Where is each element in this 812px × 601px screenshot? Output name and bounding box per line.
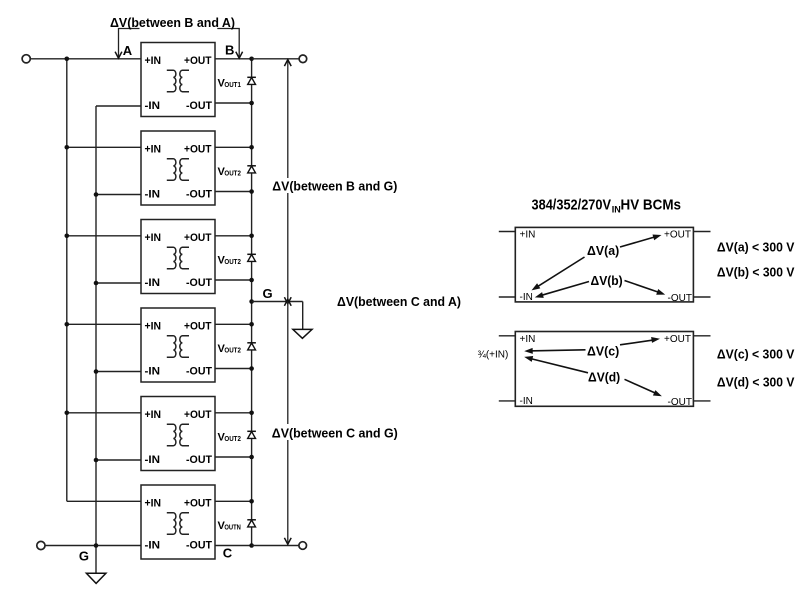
wire G tap horizontal — [252, 301, 303, 303]
svg-text:+IN: +IN — [520, 334, 536, 345]
svg-text:ΔV(d): ΔV(d) — [588, 369, 620, 384]
svg-text:G: G — [263, 286, 273, 301]
junction node G tap on output bus — [249, 299, 254, 304]
svg-text:-IN: -IN — [145, 540, 161, 552]
svg-text:HV BCMs: HV BCMs — [621, 197, 682, 214]
diode D5 — [247, 431, 256, 438]
wire top input rail A to U1 +IN — [31, 58, 142, 60]
wire U4 -OUT stub — [215, 368, 252, 370]
junction -IN bus node 2 — [94, 192, 99, 197]
wire U2 +IN stub — [67, 146, 141, 148]
diode D2 — [247, 166, 256, 173]
wire U5 +OUT stub — [215, 412, 252, 414]
wire dimension line G to C — [287, 302, 289, 545]
svg-text:+IN: +IN — [145, 232, 162, 244]
wire U1 -OUT stub — [215, 102, 252, 104]
svg-text:C: C — [223, 546, 233, 561]
arrow dV(b) — [535, 281, 665, 298]
junction U6 -OUT node — [249, 543, 254, 548]
arrowhead at rail C — [284, 538, 291, 545]
svg-text:+OUT: +OUT — [184, 409, 212, 421]
svg-text:+OUT: +OUT — [664, 230, 691, 241]
svg-text:ΔV(between C and G): ΔV(between C and G) — [272, 426, 398, 441]
arrow dV(a) — [532, 235, 662, 291]
svg-text:+IN: +IN — [145, 320, 162, 332]
svg-text:+OUT: +OUT — [184, 320, 212, 332]
wire U5 +IN stub — [67, 412, 141, 414]
junction +IN bus node 3 — [65, 234, 70, 239]
wire U6 +OUT stub — [215, 500, 252, 502]
dV(d) tail arrowhead at 3/4(+IN) — [524, 356, 533, 362]
arrow dV(c) — [524, 337, 660, 354]
svg-text:384/352/270V: 384/352/270V — [532, 197, 612, 214]
junction -IN bus node 5 — [94, 458, 99, 463]
wire U5 -OUT stub — [215, 456, 252, 458]
BCM module U4 — [141, 308, 215, 382]
dV(d) head arrowhead at -OUT — [653, 390, 662, 396]
junction U4 +OUT node — [249, 322, 254, 327]
wire bus -IN vertical — [95, 106, 97, 573]
wire U4 -IN stub — [96, 371, 141, 373]
svg-text:+IN: +IN — [145, 409, 162, 421]
wire box1 +IN stub — [499, 231, 516, 233]
svg-text:-OUT: -OUT — [668, 293, 692, 304]
leader line right (to node B) — [217, 29, 239, 57]
junction U6 +OUT node — [249, 499, 254, 504]
diode D3 — [247, 254, 256, 261]
dV(b) tail arrowhead at -IN — [535, 292, 544, 298]
output terminal C bottom-right — [299, 542, 307, 550]
wire bottom input rail G to U6 -IN — [45, 545, 141, 547]
leader line left (to node A) — [119, 29, 140, 57]
svg-text:OUT2: OUT2 — [224, 348, 241, 355]
svg-text:ΔV(between B and A): ΔV(between B and A) — [110, 15, 235, 30]
svg-text:-IN: -IN — [145, 454, 161, 466]
svg-text:-IN: -IN — [145, 100, 161, 112]
wire box1 -OUT stub — [693, 296, 710, 298]
wire U2 -IN stub — [96, 194, 141, 196]
svg-text:+IN: +IN — [145, 143, 162, 155]
svg-text:A: A — [123, 43, 133, 58]
junction -IN bus at bottom rail — [94, 543, 99, 548]
svg-text:ΔV(b): ΔV(b) — [591, 273, 623, 288]
wire box2 -IN stub — [499, 400, 516, 402]
junction U3 -OUT node — [249, 278, 254, 283]
label VOUT2 — [218, 343, 241, 355]
input terminal (+) top-left — [22, 55, 30, 63]
svg-text:ΔV(d) < 300 V: ΔV(d) < 300 V — [717, 375, 795, 390]
wire U2 -OUT stub — [215, 191, 252, 193]
wire box2 +OUT stub — [693, 335, 710, 337]
diode D6 — [247, 520, 256, 527]
junction +IN bus node 2 — [65, 145, 70, 150]
output terminal B top-right — [299, 55, 307, 63]
wire U6 -OUT stub — [215, 545, 252, 547]
junction U5 +OUT node — [249, 411, 254, 416]
svg-text:ΔV(c): ΔV(c) — [587, 343, 619, 358]
BCM module U5 — [141, 397, 215, 471]
svg-text:-IN: -IN — [520, 292, 533, 303]
svg-text:ΔV(b) < 300 V: ΔV(b) < 300 V — [717, 265, 795, 280]
BCM module U1 — [141, 43, 215, 117]
svg-text:-OUT: -OUT — [186, 540, 212, 552]
wire U1 +OUT stub — [215, 58, 252, 60]
svg-text:+OUT: +OUT — [184, 232, 212, 244]
wire output series bus — [251, 59, 253, 546]
box2 pin labels — [520, 334, 693, 408]
svg-text:ΔV(between B and G): ΔV(between B and G) — [272, 178, 397, 193]
svg-text:-OUT: -OUT — [186, 454, 212, 466]
svg-text:-OUT: -OUT — [186, 100, 212, 112]
arrow dV(d) — [524, 356, 662, 396]
wire U1 -IN stub — [96, 105, 141, 107]
label dV(between B and G) — [271, 178, 399, 193]
HV BCM outline box 2 — [515, 332, 693, 407]
svg-text:-IN: -IN — [145, 189, 161, 201]
junction U1 +OUT node — [249, 57, 254, 62]
junction U2 -OUT node — [249, 189, 254, 194]
junction -IN bus node 4 — [94, 369, 99, 374]
svg-text:-OUT: -OUT — [186, 277, 212, 289]
diode D4 — [247, 343, 256, 350]
wire U3 +IN stub — [67, 235, 141, 237]
svg-text:-IN: -IN — [520, 396, 533, 407]
svg-text:+IN: +IN — [520, 230, 536, 241]
junction +IN bus node 4 — [65, 322, 70, 327]
svg-text:IN: IN — [612, 205, 621, 215]
junction U5 -OUT node — [249, 455, 254, 460]
svg-text:OUT2: OUT2 — [224, 171, 241, 178]
wire U3 -IN stub — [96, 282, 141, 284]
junction -IN bus node 3 — [94, 281, 99, 286]
ground (input G) — [86, 573, 106, 583]
svg-text:OUT1: OUT1 — [224, 82, 241, 89]
wire box1 +OUT stub — [693, 231, 710, 233]
wire G tap vertical — [302, 302, 304, 330]
dV(c) head arrowhead at +OUT — [651, 337, 660, 343]
BCM module U3 — [141, 220, 215, 294]
svg-text:-OUT: -OUT — [186, 366, 212, 378]
BCM module U6 — [141, 485, 215, 559]
wire box2 -OUT stub — [693, 400, 710, 402]
junction U3 +OUT node — [249, 234, 254, 239]
junction U2 +OUT node — [249, 145, 254, 150]
label VOUT2 — [218, 254, 241, 266]
wire U3 -OUT stub — [215, 279, 252, 281]
input terminal (-) bottom-left — [37, 541, 45, 549]
dV(c) tail arrowhead at 3/4(+IN) — [524, 348, 533, 354]
label VOUT1 — [218, 77, 241, 89]
label VOUT2 — [218, 166, 241, 178]
svg-text:¾(+IN): ¾(+IN) — [478, 350, 509, 361]
wire U3 +OUT stub — [215, 235, 252, 237]
svg-text:+IN: +IN — [145, 497, 162, 509]
svg-text:+OUT: +OUT — [184, 143, 212, 155]
junction +IN bus node 5 — [65, 411, 70, 416]
BCM module U2 — [141, 131, 215, 205]
svg-text:OUT2: OUT2 — [224, 436, 241, 443]
svg-text:G: G — [79, 549, 89, 564]
arrowhead at G (lower) — [284, 299, 291, 306]
arrowhead at node B — [236, 52, 243, 59]
label VOUT2 — [218, 431, 241, 443]
wire U5 -IN stub — [96, 459, 141, 461]
box1 pin labels — [520, 230, 693, 305]
wire box2 +IN stub — [499, 335, 516, 337]
svg-text:OUT2: OUT2 — [224, 259, 241, 266]
label dV(between C and G) — [271, 424, 400, 441]
wire U4 +OUT stub — [215, 323, 252, 325]
junction U4 -OUT node — [249, 366, 254, 371]
HV BCM outline box 1 — [515, 227, 693, 302]
wire U2 +OUT stub — [215, 146, 252, 148]
svg-text:+OUT: +OUT — [184, 55, 212, 67]
svg-text:-OUT: -OUT — [186, 189, 212, 201]
svg-text:+IN: +IN — [145, 55, 162, 67]
junction U1 -OUT node — [249, 101, 254, 106]
svg-text:ΔV(a) < 300 V: ΔV(a) < 300 V — [717, 239, 795, 254]
title 384/352/270VIN HV BCMs — [532, 197, 682, 215]
svg-text:-OUT: -OUT — [668, 397, 692, 408]
dV(a) head arrowhead at +OUT — [653, 235, 662, 241]
arrowhead at G (upper) — [284, 297, 291, 304]
arrowhead at rail B — [284, 60, 291, 67]
wire U4 +IN stub — [67, 323, 141, 325]
svg-text:ΔV(a): ΔV(a) — [587, 243, 619, 258]
arrowhead at node A — [115, 52, 122, 59]
svg-text:B: B — [225, 43, 234, 58]
wire bus +IN vertical — [66, 59, 68, 502]
svg-text:OUTN: OUTN — [224, 525, 241, 532]
ground (output mid-point G) — [293, 329, 312, 338]
svg-text:+OUT: +OUT — [664, 334, 691, 345]
svg-text:ΔV(between C and A): ΔV(between C and A) — [337, 294, 461, 309]
diode D1 — [247, 77, 256, 84]
wire box1 -IN stub — [499, 296, 516, 298]
dV(a) tail arrowhead at -IN — [532, 283, 541, 290]
dV(b) head arrowhead at -OUT — [656, 289, 665, 295]
wire U6 +IN stub — [67, 500, 141, 502]
svg-text:-IN: -IN — [145, 277, 161, 289]
wire output rail B — [252, 58, 299, 60]
wire dimension line B to G — [287, 60, 289, 302]
junction +IN bus node 1 — [65, 57, 70, 62]
svg-text:ΔV(c) < 300 V: ΔV(c) < 300 V — [717, 347, 795, 362]
wire output rail C — [252, 545, 299, 547]
svg-text:-IN: -IN — [145, 366, 161, 378]
svg-text:+OUT: +OUT — [184, 497, 212, 509]
label VOUTN — [218, 520, 241, 532]
